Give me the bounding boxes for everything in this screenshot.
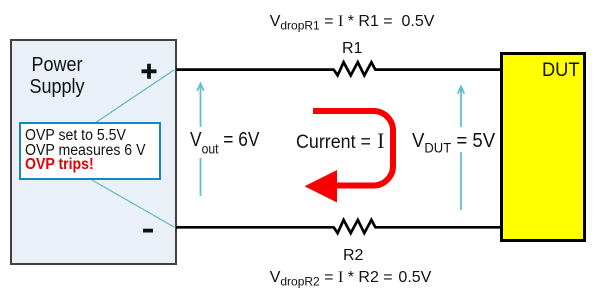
value label VdropR2 = I*R2 = 0.5V	[270, 270, 432, 286]
resistor R1 label	[342, 41, 362, 57]
resistor R2	[334, 220, 376, 233]
DUT box	[500, 52, 586, 242]
power supply label	[17, 54, 98, 98]
net label Vout = 6V	[183, 127, 271, 158]
OVP callout box	[19, 122, 161, 180]
current loop arrow (direction of I)	[313, 111, 393, 186]
leader line to - node	[92, 180, 174, 227]
leader line to + node	[95, 70, 174, 123]
resistor R2 label	[343, 248, 363, 264]
node - (negative terminal)	[143, 229, 153, 233]
resistor R1	[334, 62, 376, 75]
power supply box	[10, 39, 177, 265]
value label VdropR1 = I*R1 = 0.5V	[270, 14, 435, 30]
current label Current = I	[296, 133, 384, 152]
Vdut direction arrow	[460, 87, 462, 210]
net label VDUT = 5V	[405, 127, 498, 152]
wire from R2 to DUT	[375, 226, 501, 229]
node + (positive terminal)	[142, 64, 157, 79]
wire from - terminal to R2	[176, 226, 335, 229]
wire from R1 to DUT	[375, 68, 501, 71]
wire from + terminal to R1	[176, 68, 335, 71]
DUT label	[542, 61, 580, 80]
Vout direction arrow	[200, 84, 202, 196]
OVP callout text	[25, 129, 145, 172]
